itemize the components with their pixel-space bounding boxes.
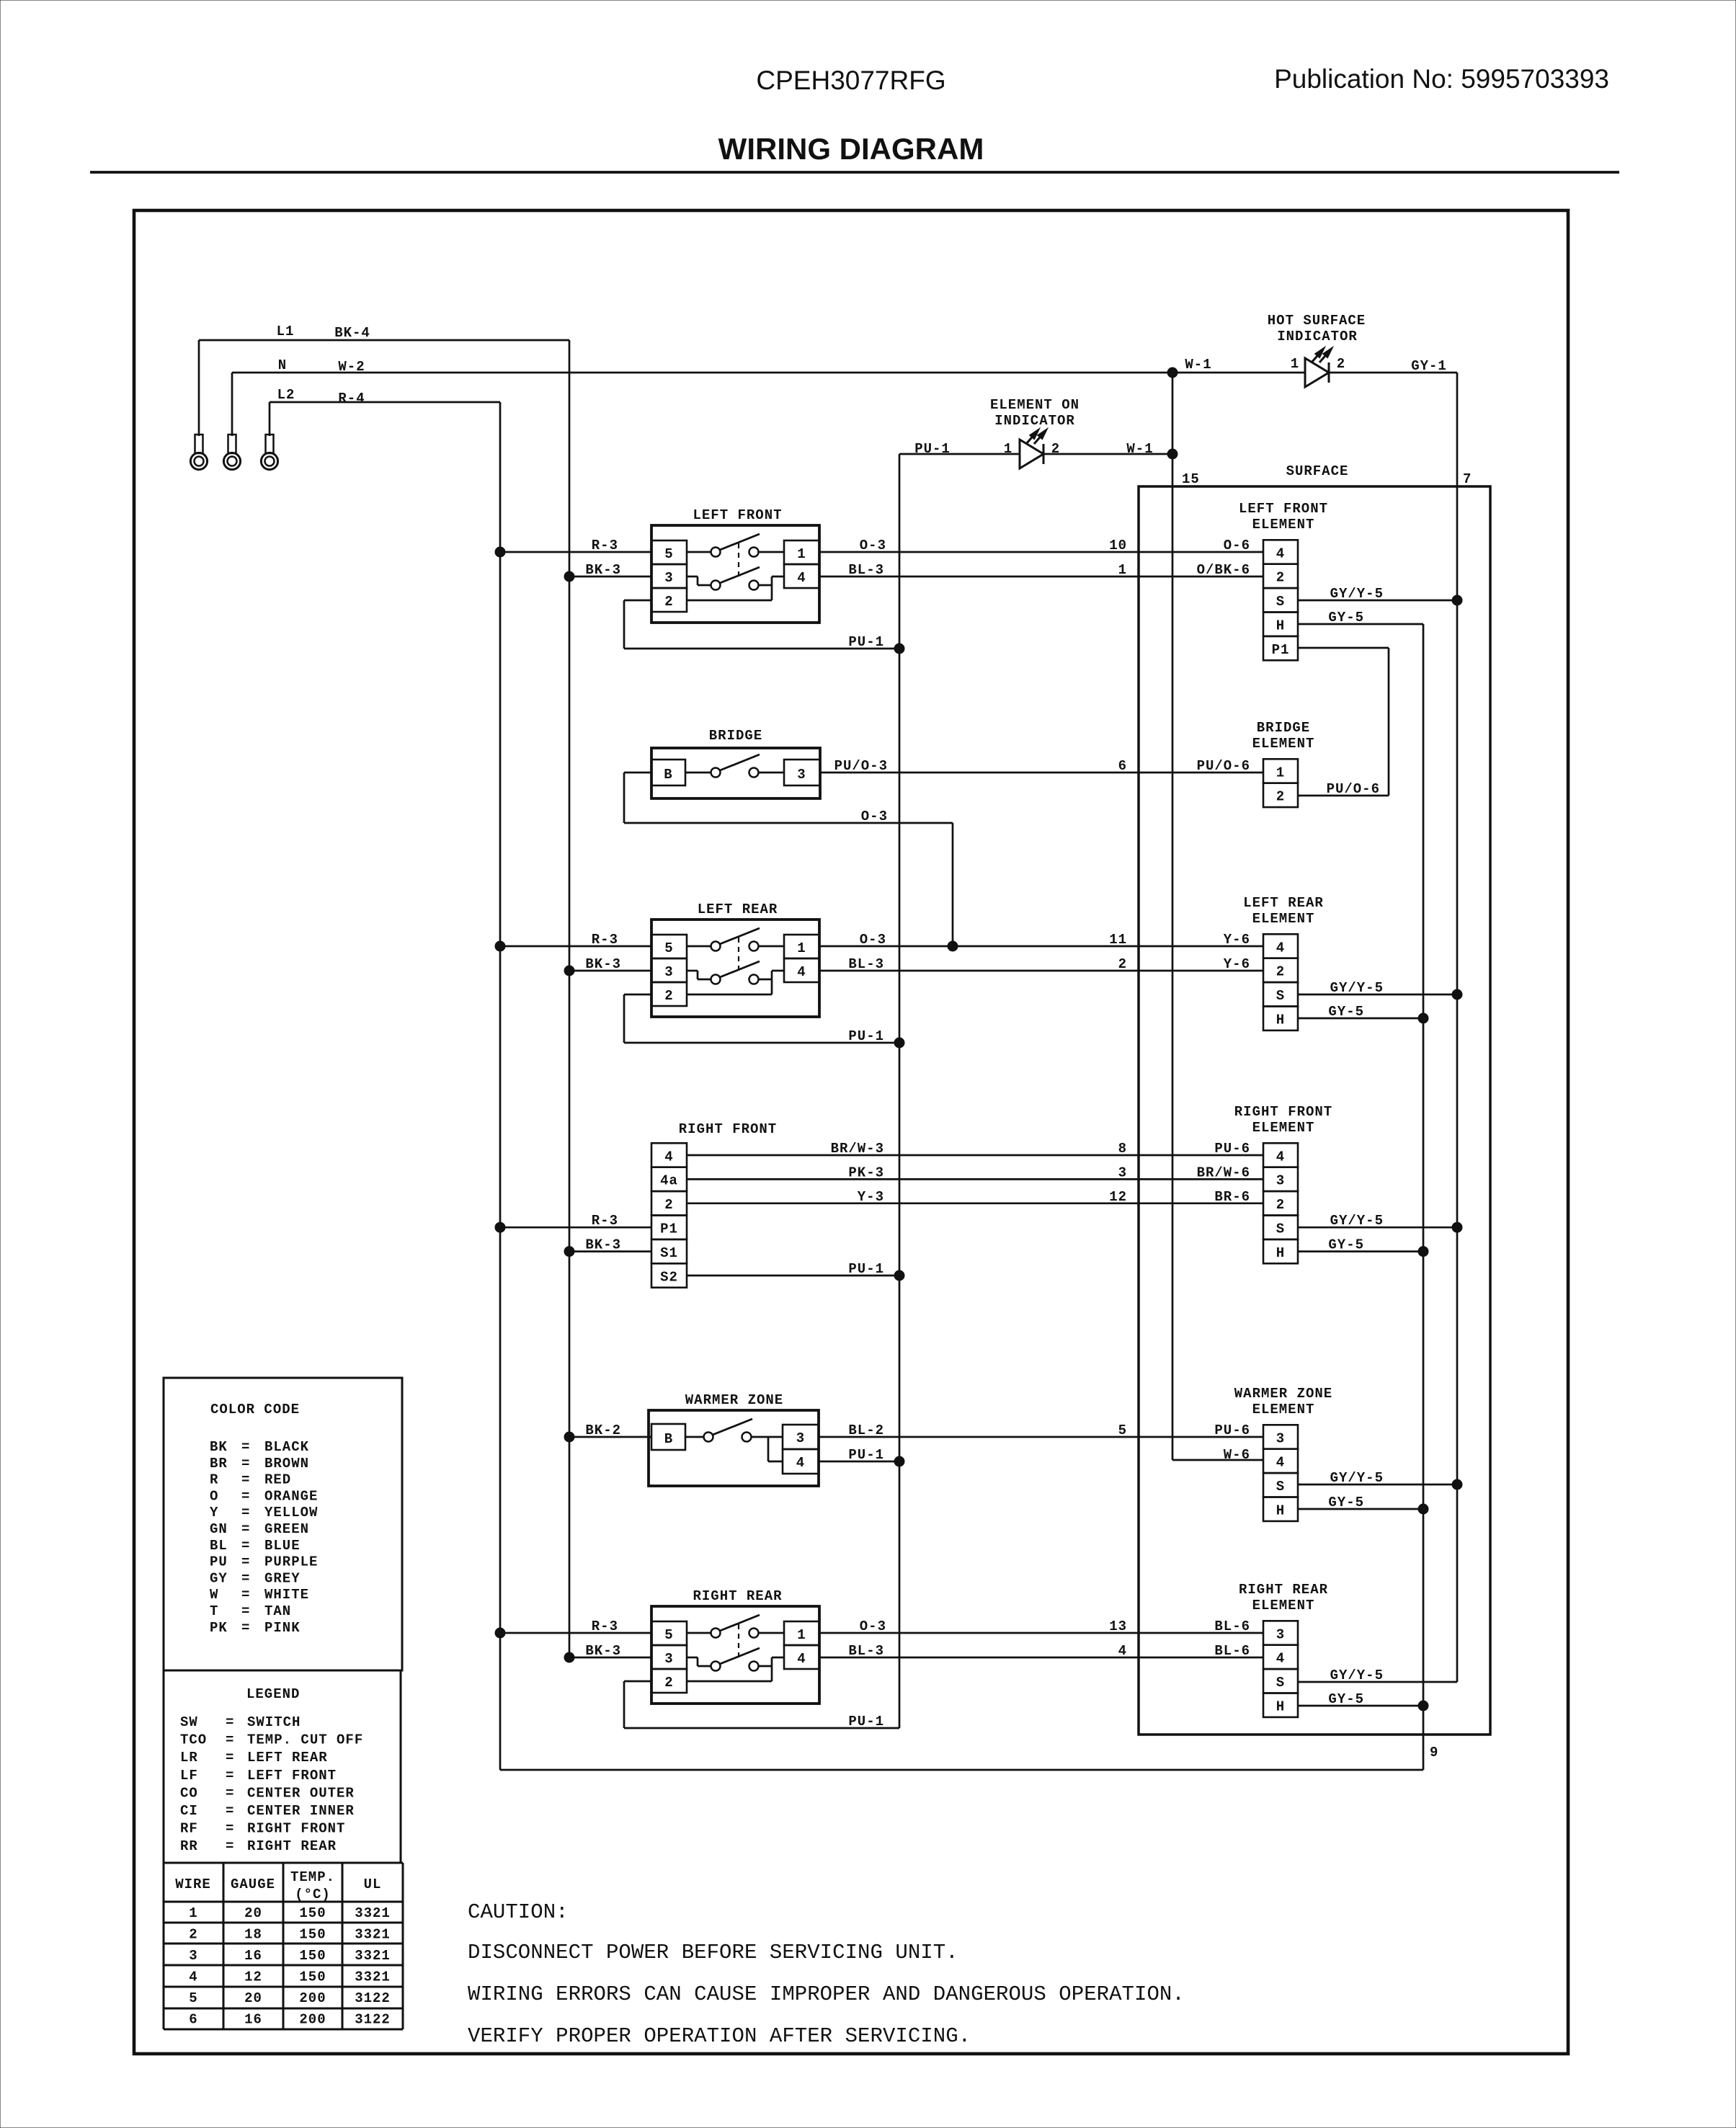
svg-text:=: =: [241, 1554, 250, 1570]
svg-text:B: B: [664, 767, 672, 783]
svg-text:1: 1: [189, 1905, 197, 1921]
svg-text:=: =: [241, 1472, 250, 1488]
svg-text:=: =: [226, 1785, 234, 1801]
svg-text:2: 2: [664, 988, 673, 1004]
svg-text:BR: BR: [210, 1456, 228, 1472]
svg-text:=: =: [226, 1821, 234, 1837]
svg-text:R-4: R-4: [338, 391, 365, 406]
svg-text:RIGHT REAR: RIGHT REAR: [1239, 1582, 1328, 1598]
svg-text:RIGHT FRONT: RIGHT FRONT: [247, 1821, 345, 1837]
svg-text:16: 16: [244, 2012, 262, 2028]
svg-text:S2: S2: [660, 1269, 678, 1285]
svg-text:4: 4: [1276, 1651, 1285, 1667]
svg-text:PU-1: PU-1: [848, 1261, 884, 1277]
svg-text:GY/Y-5: GY/Y-5: [1330, 1668, 1384, 1683]
svg-text:5: 5: [664, 546, 673, 562]
svg-text:BRIDGE: BRIDGE: [709, 728, 762, 744]
svg-text:=: =: [241, 1570, 250, 1586]
svg-text:=: =: [226, 1732, 234, 1748]
svg-text:1: 1: [1291, 356, 1299, 372]
svg-text:O/BK-6: O/BK-6: [1197, 562, 1250, 578]
svg-text:VERIFY PROPER OPERATION AFTER: VERIFY PROPER OPERATION AFTER SERVICING.: [468, 2024, 971, 2048]
svg-text:GY/Y-5: GY/Y-5: [1330, 586, 1384, 602]
svg-text:LF: LF: [180, 1768, 198, 1784]
svg-text:(°C): (°C): [295, 1887, 331, 1902]
svg-text:O-3: O-3: [861, 809, 888, 824]
svg-text:3: 3: [1276, 1626, 1285, 1642]
svg-text:R-3: R-3: [592, 1213, 618, 1229]
svg-text:GY-5: GY-5: [1328, 1691, 1364, 1707]
svg-text:RIGHT FRONT: RIGHT FRONT: [1234, 1104, 1332, 1120]
svg-text:9: 9: [1430, 1745, 1438, 1760]
svg-text:12: 12: [1109, 1189, 1127, 1205]
svg-text:3: 3: [664, 964, 673, 980]
svg-text:4: 4: [1276, 940, 1285, 956]
svg-text:=: =: [241, 1456, 250, 1472]
svg-text:150: 150: [299, 1948, 326, 1964]
svg-text:Y-6: Y-6: [1224, 932, 1250, 948]
svg-text:PU-6: PU-6: [1214, 1141, 1250, 1157]
svg-text:PU-6: PU-6: [1214, 1423, 1250, 1438]
svg-text:Publication No: 5995703393: Publication No: 5995703393: [1274, 64, 1609, 94]
svg-text:BR-6: BR-6: [1214, 1189, 1250, 1205]
svg-text:6: 6: [1118, 758, 1127, 774]
svg-text:ELEMENT: ELEMENT: [1252, 1402, 1315, 1417]
svg-text:=: =: [241, 1620, 250, 1636]
svg-text:GY-1: GY-1: [1411, 358, 1447, 374]
svg-text:BL: BL: [210, 1538, 228, 1554]
svg-text:INDICATOR: INDICATOR: [1277, 329, 1358, 344]
svg-text:BK-2: BK-2: [585, 1423, 621, 1438]
svg-text:S1: S1: [660, 1245, 678, 1261]
svg-text:BL-6: BL-6: [1214, 1643, 1250, 1659]
svg-text:WHITE: WHITE: [264, 1587, 309, 1603]
svg-text:H: H: [1276, 1699, 1285, 1715]
svg-text:L1: L1: [277, 324, 295, 339]
svg-text:H: H: [1276, 1503, 1285, 1519]
svg-text:CO: CO: [180, 1785, 198, 1801]
svg-text:1: 1: [797, 546, 806, 562]
svg-text:150: 150: [299, 1969, 326, 1985]
svg-text:BR/W-6: BR/W-6: [1197, 1165, 1250, 1180]
svg-text:BK-3: BK-3: [585, 562, 621, 578]
svg-text:5: 5: [664, 940, 673, 956]
svg-text:3321: 3321: [355, 1969, 391, 1985]
svg-text:O: O: [210, 1488, 218, 1504]
svg-text:ELEMENT: ELEMENT: [1252, 1598, 1315, 1613]
svg-text:Y: Y: [210, 1505, 218, 1521]
svg-text:1: 1: [797, 1627, 806, 1643]
svg-text:GY/Y-5: GY/Y-5: [1330, 980, 1384, 996]
svg-text:18: 18: [244, 1927, 262, 1943]
svg-text:LEFT REAR: LEFT REAR: [1243, 895, 1324, 911]
svg-text:UL: UL: [364, 1877, 382, 1892]
svg-text:BRIDGE: BRIDGE: [1257, 720, 1310, 736]
svg-text:1: 1: [1118, 562, 1127, 578]
svg-text:BLACK: BLACK: [264, 1439, 309, 1455]
svg-text:R-3: R-3: [592, 932, 618, 948]
svg-text:16: 16: [244, 1948, 262, 1964]
svg-text:=: =: [241, 1521, 250, 1537]
svg-text:GY: GY: [210, 1570, 228, 1586]
svg-text:DISCONNECT POWER BEFORE SERVIC: DISCONNECT POWER BEFORE SERVICING UNIT.: [468, 1941, 958, 1964]
svg-text:=: =: [226, 1768, 234, 1784]
svg-text:RIGHT REAR: RIGHT REAR: [693, 1588, 782, 1604]
svg-text:PU-1: PU-1: [848, 1714, 884, 1729]
svg-text:BK-3: BK-3: [585, 1643, 621, 1659]
svg-text:GREY: GREY: [264, 1570, 301, 1586]
svg-text:2: 2: [664, 1197, 673, 1213]
svg-text:ELEMENT: ELEMENT: [1252, 911, 1315, 927]
svg-text:11: 11: [1109, 932, 1127, 948]
svg-text:W: W: [210, 1587, 218, 1603]
svg-text:LEFT FRONT: LEFT FRONT: [693, 507, 782, 523]
svg-text:SWITCH: SWITCH: [247, 1714, 301, 1730]
svg-text:L2: L2: [277, 387, 295, 403]
svg-text:CI: CI: [180, 1803, 198, 1819]
svg-text:GREEN: GREEN: [264, 1521, 309, 1537]
svg-text:RIGHT REAR: RIGHT REAR: [247, 1838, 337, 1854]
svg-text:4: 4: [1276, 546, 1285, 561]
svg-text:PINK: PINK: [264, 1620, 301, 1636]
svg-text:B: B: [664, 1431, 673, 1447]
svg-text:=: =: [226, 1803, 234, 1819]
svg-text:H: H: [1276, 1012, 1285, 1028]
svg-text:ELEMENT: ELEMENT: [1252, 517, 1315, 533]
svg-text:LEGEND: LEGEND: [246, 1686, 300, 1702]
svg-text:4: 4: [797, 1651, 806, 1667]
svg-text:R: R: [210, 1472, 218, 1488]
svg-text:=: =: [241, 1439, 250, 1455]
svg-text:HOT SURFACE: HOT SURFACE: [1268, 313, 1366, 329]
svg-text:BK: BK: [210, 1439, 228, 1455]
svg-text:=: =: [226, 1838, 234, 1854]
svg-text:200: 200: [299, 2012, 326, 2028]
svg-text:BLUE: BLUE: [264, 1538, 301, 1554]
svg-text:=: =: [241, 1538, 250, 1554]
svg-text:12: 12: [244, 1969, 262, 1985]
svg-text:S: S: [1276, 1675, 1285, 1691]
svg-text:SW: SW: [180, 1714, 198, 1730]
svg-text:ELEMENT ON: ELEMENT ON: [990, 397, 1080, 413]
svg-text:3321: 3321: [355, 1905, 391, 1921]
svg-text:3: 3: [189, 1948, 197, 1964]
svg-text:WIRING DIAGRAM: WIRING DIAGRAM: [718, 132, 984, 166]
svg-text:3: 3: [1276, 1430, 1285, 1446]
svg-text:4: 4: [797, 964, 806, 980]
svg-text:20: 20: [244, 1905, 262, 1921]
svg-text:2: 2: [664, 594, 673, 610]
svg-text:PU/O-6: PU/O-6: [1197, 758, 1250, 774]
svg-text:4: 4: [1276, 1455, 1285, 1471]
svg-text:CPEH3077RFG: CPEH3077RFG: [756, 66, 945, 95]
svg-text:2: 2: [1337, 356, 1345, 372]
svg-text:6: 6: [189, 2012, 197, 2028]
svg-text:ELEMENT: ELEMENT: [1252, 736, 1315, 752]
svg-text:W-1: W-1: [1185, 357, 1211, 373]
svg-text:BL-2: BL-2: [848, 1423, 884, 1438]
svg-text:T: T: [210, 1603, 218, 1619]
svg-text:PU-1: PU-1: [848, 634, 884, 650]
svg-text:S: S: [1276, 988, 1285, 1004]
svg-text:BK-3: BK-3: [585, 1237, 621, 1253]
svg-text:3321: 3321: [355, 1948, 391, 1964]
svg-text:BL-6: BL-6: [1214, 1619, 1250, 1634]
svg-text:R-3: R-3: [592, 1619, 618, 1634]
svg-text:5: 5: [664, 1627, 673, 1643]
svg-text:13: 13: [1109, 1619, 1127, 1634]
svg-text:GY-5: GY-5: [1328, 1495, 1364, 1510]
svg-text:TCO: TCO: [180, 1732, 207, 1748]
svg-text:BK-4: BK-4: [334, 325, 370, 341]
svg-text:H: H: [1276, 1245, 1285, 1261]
svg-text:3: 3: [664, 1651, 673, 1667]
svg-text:PK: PK: [210, 1620, 228, 1636]
svg-text:ELEMENT: ELEMENT: [1252, 1120, 1315, 1136]
svg-text:COLOR CODE: COLOR CODE: [210, 1402, 300, 1417]
svg-text:GY-5: GY-5: [1328, 1237, 1364, 1253]
svg-text:3: 3: [797, 767, 806, 783]
svg-text:WIRING ERRORS CAN CAUSE IMPROP: WIRING ERRORS CAN CAUSE IMPROPER AND DAN…: [468, 1982, 1185, 2006]
svg-text:YELLOW: YELLOW: [264, 1505, 318, 1521]
svg-text:W-6: W-6: [1224, 1447, 1250, 1463]
svg-text:20: 20: [244, 1990, 262, 2006]
svg-text:SURFACE: SURFACE: [1286, 463, 1349, 479]
svg-text:4a: 4a: [660, 1173, 678, 1189]
svg-text:GY-5: GY-5: [1328, 1004, 1364, 1020]
svg-text:WIRE: WIRE: [175, 1877, 211, 1892]
svg-text:3: 3: [1276, 1173, 1285, 1189]
svg-text:5: 5: [1118, 1423, 1127, 1438]
svg-text:4: 4: [1118, 1643, 1127, 1659]
svg-text:BR/W-3: BR/W-3: [831, 1141, 884, 1157]
svg-text:=: =: [241, 1587, 250, 1603]
svg-text:GY-5: GY-5: [1328, 610, 1364, 626]
svg-text:RED: RED: [264, 1472, 291, 1488]
svg-text:150: 150: [299, 1927, 326, 1943]
svg-text:1: 1: [797, 940, 806, 956]
svg-text:LR: LR: [180, 1750, 198, 1766]
svg-text:3: 3: [796, 1430, 805, 1446]
svg-text:LEFT REAR: LEFT REAR: [698, 901, 778, 917]
svg-text:PU/O-6: PU/O-6: [1327, 781, 1380, 797]
svg-text:2: 2: [1118, 956, 1127, 972]
svg-text:R-3: R-3: [592, 538, 618, 553]
svg-text:15: 15: [1182, 471, 1200, 487]
svg-text:200: 200: [299, 1990, 326, 2006]
svg-text:PU: PU: [210, 1554, 228, 1570]
svg-text:2: 2: [664, 1675, 673, 1691]
svg-text:1: 1: [1276, 765, 1285, 780]
svg-text:2: 2: [1276, 1197, 1285, 1213]
svg-text:PU/O-3: PU/O-3: [834, 758, 888, 774]
svg-text:WARMER ZONE: WARMER ZONE: [1234, 1386, 1332, 1402]
svg-text:2: 2: [189, 1927, 197, 1943]
svg-text:10: 10: [1109, 538, 1127, 553]
svg-text:CAUTION:: CAUTION:: [468, 1900, 569, 1924]
svg-text:LEFT REAR: LEFT REAR: [247, 1750, 328, 1766]
svg-text:1: 1: [1004, 441, 1012, 457]
svg-text:150: 150: [299, 1905, 326, 1921]
svg-text:4: 4: [664, 1149, 673, 1165]
svg-text:N: N: [278, 357, 287, 373]
svg-text:GY/Y-5: GY/Y-5: [1330, 1470, 1384, 1486]
svg-text:Y-6: Y-6: [1224, 956, 1250, 972]
svg-text:=: =: [241, 1505, 250, 1521]
svg-text:GN: GN: [210, 1521, 228, 1537]
svg-text:PU-1: PU-1: [848, 1447, 884, 1463]
svg-text:PU-1: PU-1: [914, 441, 951, 457]
svg-text:7: 7: [1463, 471, 1472, 487]
svg-text:ORANGE: ORANGE: [264, 1488, 318, 1504]
svg-text:CENTER INNER: CENTER INNER: [247, 1803, 355, 1819]
svg-text:GAUGE: GAUGE: [231, 1877, 275, 1892]
svg-text:PU-1: PU-1: [848, 1028, 884, 1044]
svg-text:2: 2: [1051, 441, 1060, 457]
svg-text:WARMER ZONE: WARMER ZONE: [685, 1392, 783, 1408]
svg-text:3321: 3321: [355, 1927, 391, 1943]
svg-text:P1: P1: [1272, 642, 1290, 658]
svg-text:3: 3: [1118, 1165, 1127, 1180]
svg-text:TEMP.: TEMP.: [290, 1869, 335, 1885]
svg-text:=: =: [241, 1488, 250, 1504]
svg-text:BK-3: BK-3: [585, 956, 621, 972]
svg-text:S: S: [1276, 1479, 1285, 1495]
svg-text:LEFT FRONT: LEFT FRONT: [1239, 501, 1328, 517]
svg-text:INDICATOR: INDICATOR: [994, 413, 1075, 429]
svg-text:BROWN: BROWN: [264, 1456, 309, 1472]
svg-text:LEFT FRONT: LEFT FRONT: [247, 1768, 337, 1784]
svg-text:=: =: [241, 1603, 250, 1619]
svg-text:O-6: O-6: [1224, 538, 1250, 553]
svg-text:W-1: W-1: [1126, 441, 1153, 457]
svg-text:RF: RF: [180, 1821, 198, 1837]
svg-text:4: 4: [189, 1969, 197, 1985]
svg-text:H: H: [1276, 618, 1285, 634]
svg-text:P1: P1: [660, 1221, 678, 1237]
svg-text:=: =: [226, 1750, 234, 1766]
svg-text:5: 5: [189, 1990, 197, 2006]
svg-text:3: 3: [664, 570, 673, 586]
svg-text:4: 4: [797, 570, 806, 586]
svg-text:S: S: [1276, 1221, 1285, 1237]
svg-text:Y-3: Y-3: [858, 1189, 884, 1205]
svg-text:=: =: [226, 1714, 234, 1730]
svg-text:GY/Y-5: GY/Y-5: [1330, 1213, 1384, 1229]
svg-text:TAN: TAN: [264, 1603, 291, 1619]
svg-text:2: 2: [1276, 964, 1285, 980]
svg-text:4: 4: [1276, 1149, 1285, 1165]
svg-text:2: 2: [1276, 570, 1285, 586]
svg-text:PK-3: PK-3: [848, 1165, 884, 1180]
svg-text:8: 8: [1118, 1141, 1127, 1157]
svg-text:RIGHT FRONT: RIGHT FRONT: [679, 1121, 777, 1137]
svg-text:2: 2: [1276, 789, 1285, 805]
svg-text:PURPLE: PURPLE: [264, 1554, 318, 1570]
svg-text:3122: 3122: [355, 2012, 391, 2028]
svg-text:CENTER OUTER: CENTER OUTER: [247, 1785, 355, 1801]
svg-text:4: 4: [796, 1455, 805, 1471]
svg-text:TEMP. CUT OFF: TEMP. CUT OFF: [247, 1732, 363, 1748]
svg-text:RR: RR: [180, 1838, 198, 1854]
svg-text:S: S: [1276, 594, 1285, 610]
svg-text:3122: 3122: [355, 1990, 391, 2006]
